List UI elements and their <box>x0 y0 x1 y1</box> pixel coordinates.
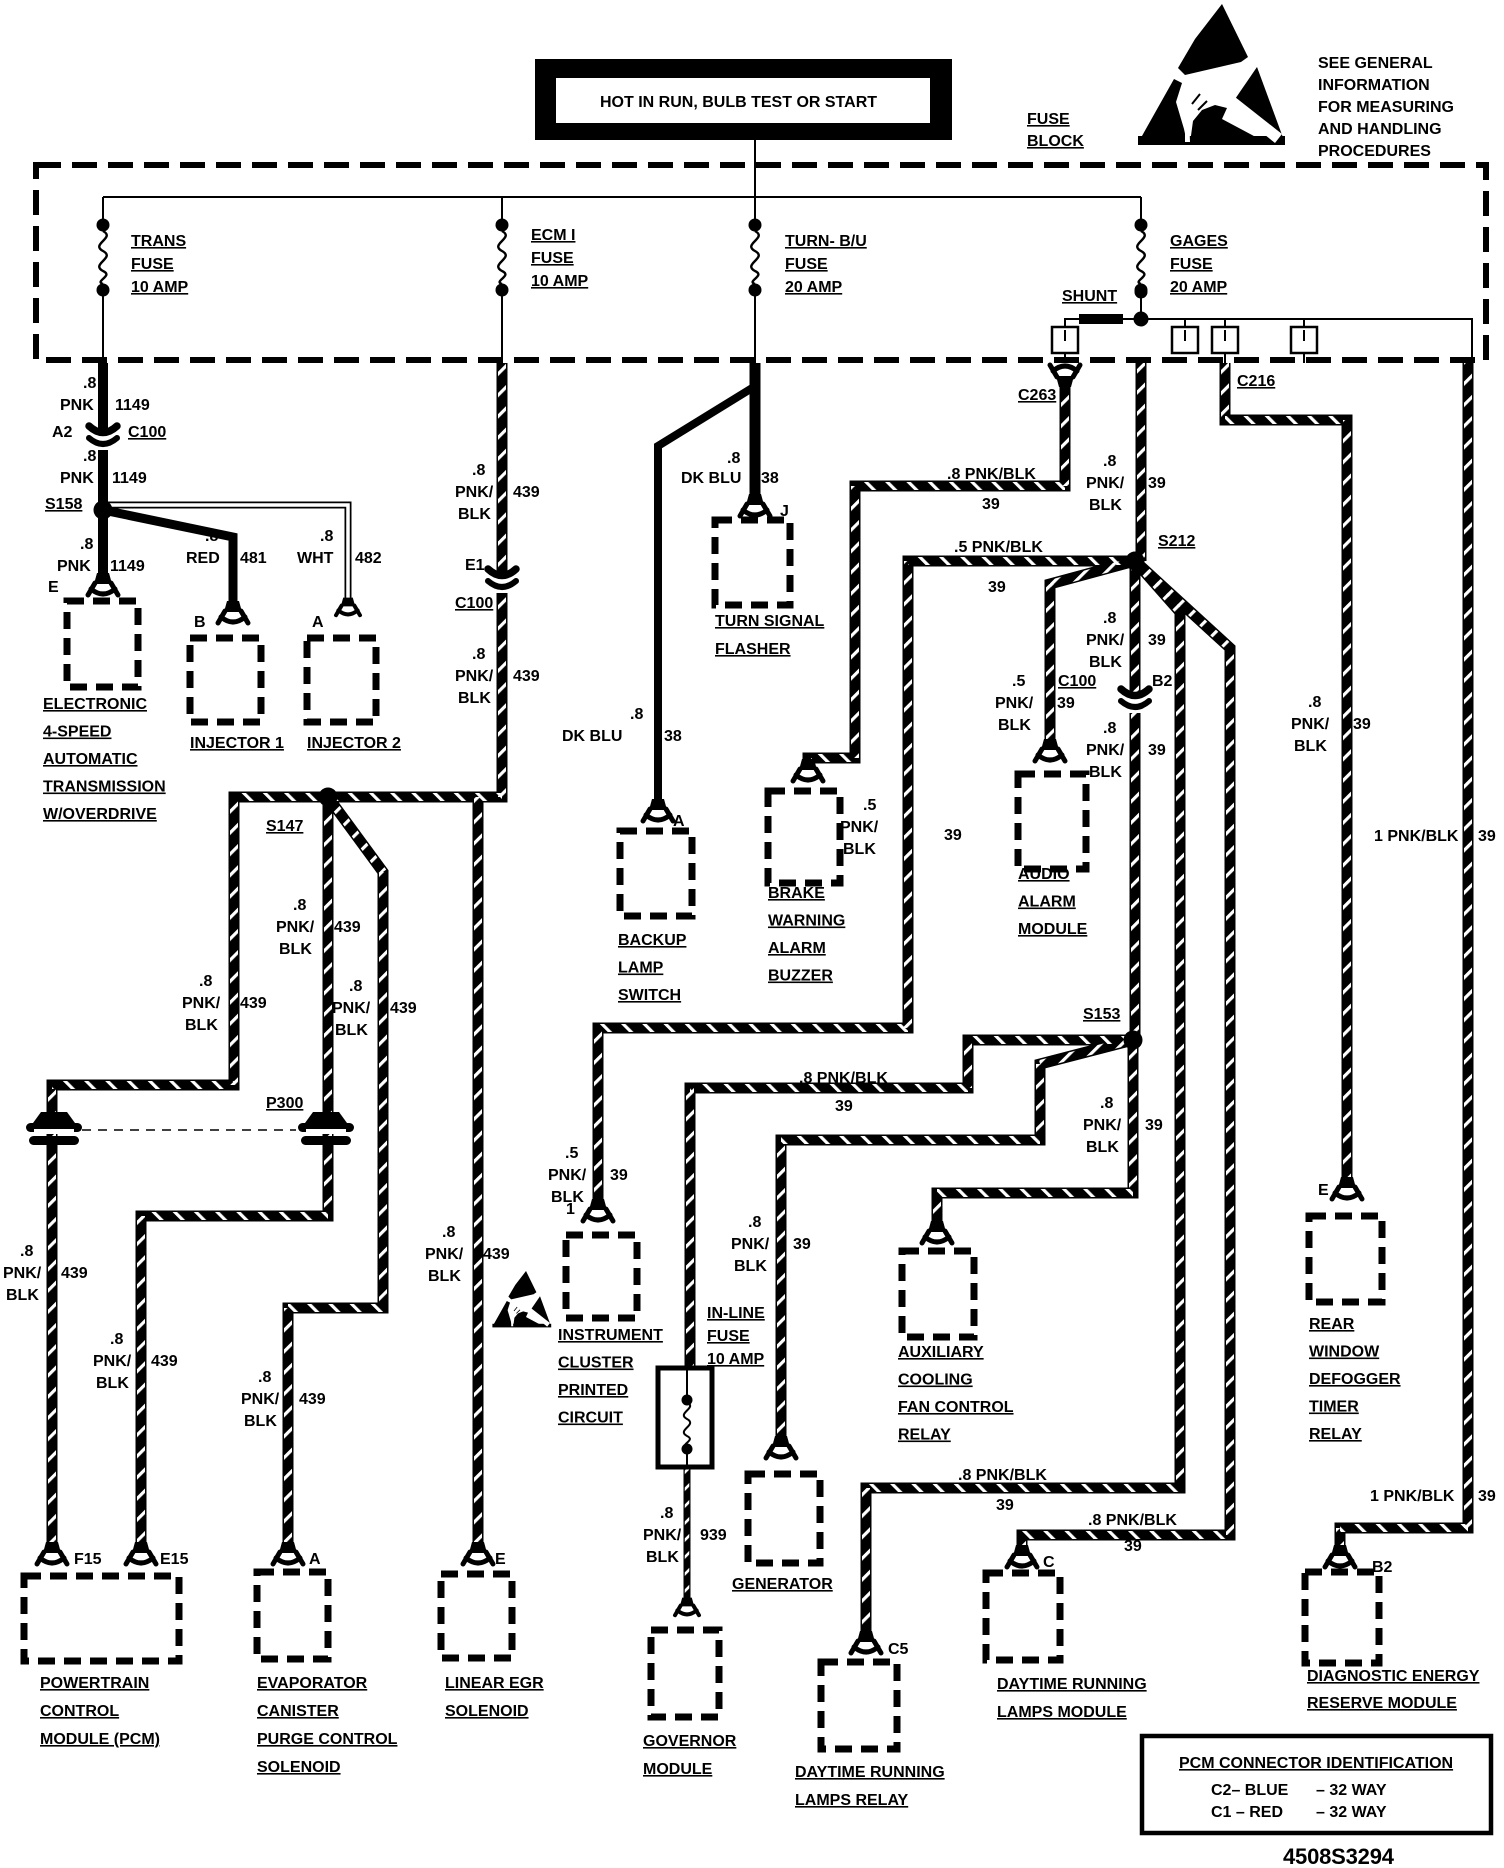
svg-text:TURN SIGNAL: TURN SIGNAL <box>715 613 825 630</box>
svg-text:PNK/: PNK/ <box>1086 475 1125 492</box>
svg-text:FLASHER: FLASHER <box>715 641 791 658</box>
svg-text:.5: .5 <box>1012 673 1025 690</box>
svg-text:.8: .8 <box>442 1224 455 1241</box>
svg-text:DAYTIME RUNNING: DAYTIME RUNNING <box>997 1676 1147 1693</box>
svg-text:39: 39 <box>1124 1538 1142 1555</box>
svg-text:PNK/: PNK/ <box>332 1000 371 1017</box>
svg-text:PNK/: PNK/ <box>1086 742 1125 759</box>
svg-text:SOLENOID: SOLENOID <box>257 1759 341 1776</box>
svg-text:20 AMP: 20 AMP <box>785 279 843 296</box>
svg-text:439: 439 <box>61 1265 88 1282</box>
svg-text:SOLENOID: SOLENOID <box>445 1703 529 1720</box>
svg-text:BLK: BLK <box>335 1022 368 1039</box>
svg-text:ALARM: ALARM <box>768 940 826 957</box>
svg-text:.8: .8 <box>472 646 485 663</box>
svg-text:LAMPS MODULE: LAMPS MODULE <box>997 1704 1127 1721</box>
svg-text:PNK/: PNK/ <box>3 1265 42 1282</box>
svg-text:39: 39 <box>1148 632 1166 649</box>
svg-text:.8: .8 <box>199 973 212 990</box>
svg-text:E15: E15 <box>160 1551 189 1568</box>
svg-text:E: E <box>1318 1182 1329 1199</box>
svg-text:LINEAR EGR: LINEAR EGR <box>445 1675 544 1692</box>
svg-text:RELAY: RELAY <box>898 1427 951 1444</box>
svg-text:.8: .8 <box>472 462 485 479</box>
svg-text:.8: .8 <box>293 897 306 914</box>
svg-text:COOLING: COOLING <box>898 1372 973 1389</box>
svg-text:.8: .8 <box>660 1505 673 1522</box>
svg-text:BUZZER: BUZZER <box>768 968 833 985</box>
svg-text:IN-LINE: IN-LINE <box>707 1305 765 1322</box>
svg-text:PCM CONNECTOR IDENTIFICATION: PCM CONNECTOR IDENTIFICATION <box>1179 1755 1453 1772</box>
svg-text:E: E <box>495 1551 506 1568</box>
svg-text:38: 38 <box>761 470 779 487</box>
svg-text:– 32 WAY: – 32 WAY <box>1316 1782 1387 1799</box>
svg-text:.8 PNK/BLK: .8 PNK/BLK <box>947 466 1036 483</box>
svg-text:A: A <box>309 1551 321 1568</box>
svg-text:FUSE: FUSE <box>1027 111 1070 128</box>
svg-text:.8: .8 <box>1100 1095 1113 1112</box>
svg-text:FUSE: FUSE <box>1170 256 1213 273</box>
svg-text:BLK: BLK <box>185 1017 218 1034</box>
svg-text:GENERATOR: GENERATOR <box>732 1576 833 1593</box>
svg-text:BACKUP: BACKUP <box>618 932 687 949</box>
svg-text:.8 PNK/BLK: .8 PNK/BLK <box>1088 1512 1177 1529</box>
svg-text:PNK/: PNK/ <box>731 1236 770 1253</box>
svg-text:38: 38 <box>664 728 682 745</box>
svg-text:BLK: BLK <box>1089 654 1122 671</box>
svg-text:DIAGNOSTIC ENERGY: DIAGNOSTIC ENERGY <box>1307 1668 1480 1685</box>
svg-text:1149: 1149 <box>110 558 145 575</box>
svg-text:SWITCH: SWITCH <box>618 987 681 1004</box>
svg-text:– 32 WAY: – 32 WAY <box>1316 1804 1387 1821</box>
svg-text:LAMP: LAMP <box>618 960 664 977</box>
svg-text:DEFOGGER: DEFOGGER <box>1309 1371 1401 1388</box>
svg-text:HOT IN RUN, BULB TEST OR START: HOT IN RUN, BULB TEST OR START <box>600 94 877 111</box>
svg-text:39: 39 <box>1353 716 1371 733</box>
svg-text:1149: 1149 <box>112 470 147 487</box>
svg-text:39: 39 <box>1148 475 1166 492</box>
svg-text:939: 939 <box>700 1527 727 1544</box>
svg-text:.5: .5 <box>565 1145 578 1162</box>
svg-text:.8: .8 <box>727 450 740 467</box>
svg-text:C1 – RED: C1 – RED <box>1211 1804 1283 1821</box>
svg-text:F15: F15 <box>74 1551 102 1568</box>
svg-text:BRAKE: BRAKE <box>768 885 825 902</box>
svg-text:B: B <box>194 614 206 631</box>
svg-text:PNK/: PNK/ <box>425 1246 464 1263</box>
svg-text:1 PNK/BLK: 1 PNK/BLK <box>1374 828 1459 845</box>
svg-text:ELECTRONIC: ELECTRONIC <box>43 696 147 713</box>
svg-text:A2: A2 <box>52 424 73 441</box>
svg-text:PNK/: PNK/ <box>840 819 879 836</box>
svg-text:PNK: PNK <box>57 558 91 575</box>
svg-text:39: 39 <box>1478 828 1496 845</box>
svg-text:AUDIO: AUDIO <box>1018 866 1070 883</box>
svg-text:PNK: PNK <box>60 470 94 487</box>
svg-text:S158: S158 <box>45 496 82 513</box>
svg-text:.8: .8 <box>83 448 96 465</box>
svg-text:39: 39 <box>988 579 1006 596</box>
svg-text:.8: .8 <box>258 1369 271 1386</box>
svg-text:39: 39 <box>1145 1117 1163 1134</box>
svg-text:CONTROL: CONTROL <box>40 1703 119 1720</box>
svg-text:.8: .8 <box>1103 610 1116 627</box>
svg-text:39: 39 <box>793 1236 811 1253</box>
svg-text:PURGE CONTROL: PURGE CONTROL <box>257 1731 398 1748</box>
svg-text:C100: C100 <box>1058 673 1096 690</box>
svg-text:MODULE: MODULE <box>643 1761 713 1778</box>
svg-text:.8 PNK/BLK: .8 PNK/BLK <box>799 1070 888 1087</box>
svg-text:PROCEDURES: PROCEDURES <box>1318 143 1431 160</box>
svg-text:BLK: BLK <box>279 941 312 958</box>
svg-text:TRANSMISSION: TRANSMISSION <box>43 779 166 796</box>
svg-text:RED: RED <box>186 550 220 567</box>
svg-text:BLK: BLK <box>998 717 1031 734</box>
svg-text:439: 439 <box>513 484 540 501</box>
svg-text:ALARM: ALARM <box>1018 894 1076 911</box>
svg-text:POWERTRAIN: POWERTRAIN <box>40 1675 149 1692</box>
svg-text:W/OVERDRIVE: W/OVERDRIVE <box>43 806 157 823</box>
svg-text:C100: C100 <box>128 424 166 441</box>
svg-text:1149: 1149 <box>115 397 150 414</box>
svg-text:.5: .5 <box>863 797 876 814</box>
svg-text:MODULE: MODULE <box>1018 921 1088 938</box>
svg-text:1: 1 <box>566 1201 575 1218</box>
svg-text:PNK: PNK <box>60 397 94 414</box>
svg-text:REAR: REAR <box>1309 1316 1355 1333</box>
svg-text:PNK/: PNK/ <box>455 484 494 501</box>
svg-text:S153: S153 <box>1083 1006 1120 1023</box>
svg-text:PNK/: PNK/ <box>93 1353 132 1370</box>
svg-text:TIMER: TIMER <box>1309 1399 1359 1416</box>
svg-text:PNK/: PNK/ <box>995 695 1034 712</box>
svg-text:ECM I: ECM I <box>531 227 575 244</box>
svg-text:J: J <box>780 503 789 520</box>
svg-text:439: 439 <box>299 1391 326 1408</box>
svg-text:B2: B2 <box>1152 673 1173 690</box>
svg-text:RELAY: RELAY <box>1309 1426 1362 1443</box>
svg-text:B2: B2 <box>1372 1559 1393 1576</box>
svg-text:CANISTER: CANISTER <box>257 1703 339 1720</box>
svg-text:AUXILIARY: AUXILIARY <box>898 1344 984 1361</box>
svg-text:S147: S147 <box>266 818 303 835</box>
svg-text:439: 439 <box>151 1353 178 1370</box>
svg-text:39: 39 <box>1478 1488 1496 1505</box>
svg-text:10 AMP: 10 AMP <box>131 279 189 296</box>
svg-text:A: A <box>673 813 685 830</box>
svg-text:.8: .8 <box>349 978 362 995</box>
svg-text:FUSE: FUSE <box>785 256 828 273</box>
svg-text:C2– BLUE: C2– BLUE <box>1211 1782 1289 1799</box>
svg-text:CIRCUIT: CIRCUIT <box>558 1410 623 1427</box>
svg-text:BLK: BLK <box>734 1258 767 1275</box>
svg-text:10 AMP: 10 AMP <box>531 273 589 290</box>
svg-text:39: 39 <box>1057 695 1075 712</box>
svg-text:C: C <box>1043 1554 1055 1571</box>
svg-text:P300: P300 <box>266 1095 303 1112</box>
svg-text:A: A <box>312 614 324 631</box>
svg-text:PNK/: PNK/ <box>643 1527 682 1544</box>
svg-text:PNK/: PNK/ <box>548 1167 587 1184</box>
svg-text:INJECTOR 2: INJECTOR 2 <box>307 735 401 752</box>
svg-text:PNK/: PNK/ <box>1291 716 1330 733</box>
svg-text:S212: S212 <box>1158 533 1195 550</box>
svg-text:.8: .8 <box>1308 694 1321 711</box>
svg-text:GAGES: GAGES <box>1170 233 1228 250</box>
svg-text:439: 439 <box>390 1000 417 1017</box>
svg-text:INSTRUMENT: INSTRUMENT <box>558 1327 663 1344</box>
svg-text:BLK: BLK <box>428 1268 461 1285</box>
svg-text:BLK: BLK <box>6 1287 39 1304</box>
svg-text:FOR MEASURING: FOR MEASURING <box>1318 99 1454 116</box>
svg-text:PRINTED: PRINTED <box>558 1382 628 1399</box>
svg-text:C263: C263 <box>1018 387 1056 404</box>
svg-text:BLOCK: BLOCK <box>1027 133 1084 150</box>
svg-text:BLK: BLK <box>1294 738 1327 755</box>
svg-text:439: 439 <box>240 995 267 1012</box>
svg-text:PNK/: PNK/ <box>276 919 315 936</box>
svg-text:39: 39 <box>996 1497 1014 1514</box>
svg-text:PNK/: PNK/ <box>182 995 221 1012</box>
svg-text:4508S3294: 4508S3294 <box>1283 1844 1395 1868</box>
svg-text:FUSE: FUSE <box>531 250 574 267</box>
svg-text:EVAPORATOR: EVAPORATOR <box>257 1675 368 1692</box>
svg-text:39: 39 <box>944 827 962 844</box>
svg-text:DAYTIME RUNNING: DAYTIME RUNNING <box>795 1764 945 1781</box>
svg-text:39: 39 <box>835 1098 853 1115</box>
svg-text:PNK/: PNK/ <box>455 668 494 685</box>
svg-text:.8: .8 <box>83 375 96 392</box>
svg-text:BLK: BLK <box>646 1549 679 1566</box>
svg-text:C100: C100 <box>455 595 493 612</box>
svg-text:BLK: BLK <box>1089 764 1122 781</box>
svg-text:AUTOMATIC: AUTOMATIC <box>43 751 138 768</box>
svg-text:.8: .8 <box>320 528 333 545</box>
svg-text:20 AMP: 20 AMP <box>1170 279 1228 296</box>
svg-text:BLK: BLK <box>458 690 491 707</box>
svg-text:AND HANDLING: AND HANDLING <box>1318 121 1442 138</box>
svg-text:CLUSTER: CLUSTER <box>558 1355 634 1372</box>
svg-text:1 PNK/BLK: 1 PNK/BLK <box>1370 1488 1455 1505</box>
svg-text:481: 481 <box>240 550 267 567</box>
svg-text:FUSE: FUSE <box>131 256 174 273</box>
svg-text:.8: .8 <box>110 1331 123 1348</box>
svg-text:SHUNT: SHUNT <box>1062 288 1117 305</box>
svg-text:.8: .8 <box>80 536 93 553</box>
svg-text:DK BLU: DK BLU <box>681 470 741 487</box>
svg-text:439: 439 <box>483 1246 510 1263</box>
svg-text:TRANS: TRANS <box>131 233 186 250</box>
svg-text:BLK: BLK <box>1086 1139 1119 1156</box>
svg-text:TURN- B/U: TURN- B/U <box>785 233 867 250</box>
svg-text:LAMPS RELAY: LAMPS RELAY <box>795 1792 909 1809</box>
svg-text:.8: .8 <box>20 1243 33 1260</box>
svg-text:BLK: BLK <box>843 841 876 858</box>
svg-text:DK BLU: DK BLU <box>562 728 622 745</box>
svg-text:GOVERNOR: GOVERNOR <box>643 1733 737 1750</box>
svg-text:FAN CONTROL: FAN CONTROL <box>898 1399 1014 1416</box>
svg-text:439: 439 <box>513 668 540 685</box>
svg-text:.8 PNK/BLK: .8 PNK/BLK <box>958 1467 1047 1484</box>
svg-text:39: 39 <box>1148 742 1166 759</box>
svg-text:WARNING: WARNING <box>768 913 845 930</box>
svg-text:PNK/: PNK/ <box>1086 632 1125 649</box>
svg-text:BLK: BLK <box>244 1413 277 1430</box>
svg-text:BLK: BLK <box>96 1375 129 1392</box>
svg-text:MODULE (PCM): MODULE (PCM) <box>40 1731 160 1748</box>
svg-text:439: 439 <box>334 919 361 936</box>
svg-text:39: 39 <box>982 496 1000 513</box>
svg-text:PNK/: PNK/ <box>241 1391 280 1408</box>
svg-text:.8: .8 <box>205 528 218 545</box>
svg-text:E1: E1 <box>465 557 485 574</box>
svg-text:.5 PNK/BLK: .5 PNK/BLK <box>954 539 1043 556</box>
svg-text:WINDOW: WINDOW <box>1309 1344 1380 1361</box>
svg-text:.8: .8 <box>1103 453 1116 470</box>
svg-text:RESERVE MODULE: RESERVE MODULE <box>1307 1695 1457 1712</box>
svg-text:482: 482 <box>355 550 382 567</box>
svg-text:WHT: WHT <box>297 550 334 567</box>
svg-text:.8: .8 <box>630 706 643 723</box>
svg-text:.8: .8 <box>1103 720 1116 737</box>
svg-text:C216: C216 <box>1237 373 1275 390</box>
svg-text:4-SPEED: 4-SPEED <box>43 724 111 741</box>
svg-text:BLK: BLK <box>1089 497 1122 514</box>
svg-text:.8: .8 <box>748 1214 761 1231</box>
svg-text:INFORMATION: INFORMATION <box>1318 77 1430 94</box>
svg-text:10 AMP: 10 AMP <box>707 1351 765 1368</box>
svg-text:39: 39 <box>610 1167 628 1184</box>
svg-text:FUSE: FUSE <box>707 1328 750 1345</box>
svg-text:PNK/: PNK/ <box>1083 1117 1122 1134</box>
svg-text:E: E <box>48 579 59 596</box>
svg-text:INJECTOR 1: INJECTOR 1 <box>190 735 284 752</box>
svg-text:SEE GENERAL: SEE GENERAL <box>1318 55 1433 72</box>
svg-text:C5: C5 <box>888 1641 909 1658</box>
svg-text:BLK: BLK <box>458 506 491 523</box>
